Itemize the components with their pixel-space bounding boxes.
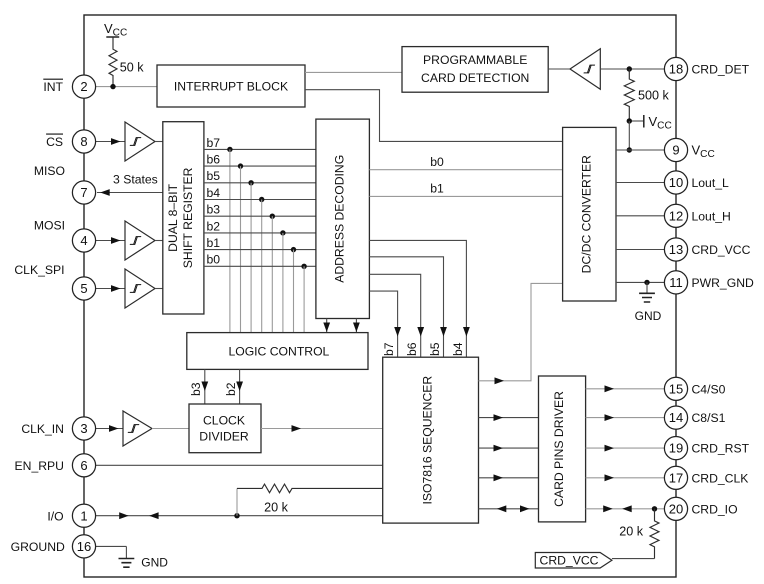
pin 14 circle — [664, 406, 687, 429]
svg-text:I/O: I/O — [47, 509, 63, 523]
power symbol VCC top-left — [104, 21, 127, 39]
arrow into CS buffer — [111, 138, 121, 145]
svg-text:CS: CS — [46, 135, 63, 149]
svg-text:GND: GND — [141, 556, 168, 570]
wire b7 drop to logic control — [229, 149, 231, 332]
svg-text:C8/S1: C8/S1 — [692, 411, 726, 425]
svg-text:1: 1 — [80, 508, 87, 523]
pin 4 circle — [72, 229, 95, 252]
wire sequencer to card pins driver CRD_CLK row — [479, 477, 539, 479]
arrow address decoding to logic control right — [355, 319, 357, 333]
block ISO7816 sequencer — [383, 357, 479, 523]
wire address decoding b6 to sequencer — [369, 274, 420, 357]
arrow CRD_IO row right — [520, 505, 530, 512]
pin 20 circle — [664, 497, 687, 520]
junction node b3 — [270, 214, 275, 219]
wire MOSI buffer to shift register — [155, 240, 163, 242]
wire I/O pin to sequencer — [84, 515, 383, 517]
svg-text:CLK_IN: CLK_IN — [21, 422, 64, 436]
pin 11 circle — [664, 271, 687, 294]
wire interrupt block to DC/DC converter — [305, 90, 563, 142]
block interrupt block — [157, 65, 305, 107]
svg-text:9: 9 — [672, 143, 679, 158]
svg-text:4: 4 — [80, 233, 87, 248]
svg-text:b6: b6 — [405, 342, 419, 356]
arrow CRD_IO pin right — [603, 505, 613, 512]
svg-text:b7: b7 — [207, 136, 221, 150]
schmitt buffer MOSI — [125, 221, 155, 260]
junction node b7 — [227, 147, 232, 152]
wire b2 drop to logic control — [282, 233, 284, 333]
wire CS pin to buffer — [84, 141, 125, 143]
arrow I/O right — [119, 512, 129, 519]
svg-text:5: 5 — [80, 281, 87, 296]
wire comparator to CRD_DET pin — [600, 68, 676, 70]
svg-text:b2: b2 — [207, 219, 221, 233]
svg-text:12: 12 — [669, 208, 683, 223]
svg-text:CRD_RST: CRD_RST — [692, 442, 750, 456]
svg-text:CLK_SPI: CLK_SPI — [14, 263, 64, 277]
resistor 500 k — [624, 69, 669, 121]
junction node VCC tap — [627, 118, 632, 123]
pin 12 circle — [664, 204, 687, 227]
wire bus line b1 — [204, 249, 316, 251]
wire card detection to comparator — [548, 68, 570, 70]
pin 9 circle — [664, 138, 687, 161]
wire bus line b5 — [204, 182, 316, 184]
svg-text:b5: b5 — [428, 342, 442, 356]
svg-text:b7: b7 — [382, 342, 396, 356]
junction node b2 — [280, 230, 285, 235]
pin 13 circle — [664, 238, 687, 261]
svg-text:20 k: 20 k — [619, 524, 644, 538]
svg-text:EN_RPU: EN_RPU — [15, 459, 64, 473]
svg-text:2: 2 — [80, 79, 87, 94]
junction node PWR_GND — [644, 280, 649, 285]
svg-text:20 k: 20 k — [264, 500, 289, 514]
wire b3 logic control to clock divider — [204, 369, 206, 404]
resistor 20 k pull-up — [237, 484, 383, 516]
svg-text:PWR_GND: PWR_GND — [692, 276, 754, 290]
pin 7 circle — [72, 181, 95, 204]
svg-text:b1: b1 — [207, 236, 221, 250]
arrow clock to sequencer — [292, 425, 302, 432]
wire DC/DC to pin — [616, 249, 676, 251]
svg-text:b0: b0 — [207, 253, 221, 267]
wire bus b1 to DC/DC — [369, 195, 562, 197]
pin 10 circle — [664, 171, 687, 194]
pin 17 circle — [664, 466, 687, 489]
wire bus line b0 — [204, 265, 316, 267]
svg-text:6: 6 — [80, 458, 87, 473]
pin 2 circle — [72, 75, 95, 98]
arrow MISO out — [100, 189, 110, 196]
svg-text:CRD_IO: CRD_IO — [692, 502, 738, 516]
pin 19 circle — [664, 437, 687, 460]
label INT — [43, 79, 63, 94]
svg-text:b4: b4 — [451, 342, 465, 356]
svg-text:3 States: 3 States — [113, 173, 158, 187]
svg-text:LOGIC CONTROL: LOGIC CONTROL — [228, 345, 329, 359]
arrow address decoding to logic control left — [326, 319, 328, 333]
pin 1 circle — [72, 504, 95, 527]
schmitt buffer CLK_SPI — [125, 269, 155, 308]
svg-text:C4/S0: C4/S0 — [692, 382, 726, 396]
pin 8 circle — [72, 130, 95, 153]
arrow into MOSI buffer — [111, 237, 121, 244]
svg-text:b1: b1 — [430, 182, 444, 196]
svg-text:GND: GND — [635, 309, 662, 323]
svg-text:b3: b3 — [207, 203, 221, 217]
junction node b5 — [248, 180, 253, 185]
wire MOSI pin to buffer — [84, 240, 125, 242]
wire resistor to CRD_VCC tag — [612, 558, 655, 560]
block dual 8-bit shift register — [163, 122, 204, 314]
svg-text:SHIFT REGISTER: SHIFT REGISTER — [181, 167, 195, 268]
wire driver to card pin — [586, 417, 676, 419]
resistor 20 k card I/O pull-up — [619, 509, 659, 559]
svg-text:20: 20 — [669, 501, 683, 516]
comparator buffer card detect — [570, 49, 600, 90]
svg-text:14: 14 — [669, 410, 683, 425]
wire bus line b6 — [204, 165, 316, 167]
wire DC/DC to pin — [616, 281, 676, 283]
wire b3 drop to logic control — [271, 216, 273, 332]
arrow sequencer to DC/DC — [495, 377, 505, 384]
block card pins driver — [539, 376, 586, 522]
wire MISO output 3-state — [97, 192, 163, 194]
wire CLK_IN pin to buffer — [84, 428, 123, 430]
wire b6 drop to logic control — [240, 166, 242, 333]
wire bus b0 to DC/DC — [369, 169, 562, 171]
junction node b4 — [259, 197, 264, 202]
wire b5 drop to logic control — [250, 183, 252, 333]
arrow into driver CRD_RST row — [494, 445, 504, 452]
schmitt buffer CS — [125, 122, 155, 161]
svg-text:ADDRESS DECODING: ADDRESS DECODING — [333, 155, 347, 283]
wire b1 drop to logic control — [293, 250, 295, 333]
block DC/DC converter — [563, 127, 616, 301]
arrow CRD_IO row left — [497, 505, 507, 512]
svg-text:15: 15 — [669, 381, 683, 396]
svg-text:13: 13 — [669, 242, 683, 257]
svg-text:MISO: MISO — [34, 164, 65, 178]
block clock divider — [189, 404, 261, 453]
svg-text:PROGRAMMABLE: PROGRAMMABLE — [423, 53, 527, 67]
wire sequencer to card pins driver CRD_RST row — [479, 447, 539, 449]
net tag CRD_VCC — [535, 553, 612, 569]
wire sequencer to DC/DC converter — [479, 283, 563, 380]
svg-text:b0: b0 — [430, 155, 444, 169]
block programmable card detection — [402, 47, 548, 93]
schmitt buffer CLK_IN — [123, 411, 152, 446]
junction node b1 — [291, 247, 296, 252]
outer IC boundary box — [84, 15, 676, 577]
wire DC/DC to pin — [616, 182, 676, 184]
wire clock divider to sequencer — [261, 428, 383, 430]
wire buffer to clock divider — [152, 428, 189, 430]
svg-text:CLOCK: CLOCK — [203, 414, 245, 428]
svg-text:CARD PINS DRIVER: CARD PINS DRIVER — [552, 391, 566, 507]
svg-text:CARD DETECTION: CARD DETECTION — [421, 71, 529, 85]
wire CLK_SPI pin to buffer — [84, 288, 125, 290]
arrow to card pin — [605, 414, 615, 421]
svg-text:19: 19 — [669, 441, 683, 456]
svg-text:18: 18 — [669, 62, 683, 77]
wire driver to CRD_IO pin — [586, 508, 676, 510]
wire INT pin to interrupt block — [84, 86, 157, 88]
wire CLK_SPI buffer to shift register — [155, 288, 163, 290]
wire driver to card pin — [586, 477, 676, 479]
ground symbol at GROUND pin — [96, 546, 169, 569]
svg-text:GROUND: GROUND — [11, 540, 65, 554]
junction node at 500k top — [627, 66, 632, 71]
junction node b6 — [238, 163, 243, 168]
svg-text:CRD_CLK: CRD_CLK — [692, 471, 749, 485]
wire sequencer to card pins driver C8/S1 row — [479, 417, 539, 419]
wire bus line b4 — [204, 199, 316, 201]
power symbol VCC mid-right — [629, 114, 671, 132]
junction node at INT/50k — [110, 84, 115, 89]
junction node I/O pull-up — [234, 513, 239, 518]
svg-text:10: 10 — [669, 175, 683, 190]
svg-text:17: 17 — [669, 470, 683, 485]
svg-text:CRD_VCC: CRD_VCC — [692, 243, 751, 257]
svg-text:MOSI: MOSI — [34, 219, 65, 233]
svg-text:CRD_VCC: CRD_VCC — [540, 554, 599, 568]
pin 18 circle — [664, 57, 687, 80]
wire address decoding b7 to sequencer — [369, 291, 397, 357]
svg-text:INTERRUPT BLOCK: INTERRUPT BLOCK — [174, 80, 288, 94]
pin 15 circle — [664, 377, 687, 400]
wire b4 drop to logic control — [261, 200, 263, 333]
svg-text:b3: b3 — [189, 382, 203, 396]
junction node on VCC pin line — [627, 147, 632, 152]
pin 3 circle — [72, 417, 95, 440]
svg-text:b6: b6 — [207, 153, 221, 167]
svg-text:500 k: 500 k — [638, 89, 670, 103]
svg-text:CRD_DET: CRD_DET — [692, 63, 750, 77]
svg-text:7: 7 — [80, 185, 87, 200]
wire b2 logic control to clock divider — [239, 369, 241, 404]
arrow b4 into sequencer — [463, 327, 470, 337]
arrow into CLK_SPI buffer — [111, 285, 121, 292]
svg-text:b4: b4 — [207, 186, 221, 200]
svg-text:8: 8 — [80, 134, 87, 149]
svg-text:3: 3 — [80, 421, 87, 436]
junction node b0 — [301, 264, 306, 269]
wire driver to card pin — [586, 447, 676, 449]
resistor 50 k — [109, 37, 144, 86]
svg-text:16: 16 — [77, 539, 91, 554]
junction node CRD_IO pull-up — [652, 506, 657, 511]
svg-text:DC/DC CONVERTER: DC/DC CONVERTER — [579, 155, 593, 273]
svg-text:50 k: 50 k — [120, 61, 145, 75]
wire bus line b3 — [204, 215, 316, 217]
label CS — [46, 134, 63, 149]
wire address decoding b5 to sequencer — [369, 257, 443, 357]
wire buffer to shift register — [155, 141, 163, 143]
arrow b5 into sequencer — [440, 327, 447, 337]
arrow b7 into sequencer — [394, 327, 401, 337]
wire address decoding b4 to sequencer — [369, 240, 466, 357]
arrow b6 into sequencer — [417, 327, 424, 337]
arrow I/O left — [149, 512, 159, 519]
pin 5 circle — [72, 277, 95, 300]
svg-text:DIVIDER: DIVIDER — [199, 430, 249, 444]
wire interrupt block to programmable card detection — [305, 71, 402, 73]
wire bus line b2 — [204, 232, 316, 234]
arrow to card pin — [605, 385, 615, 392]
wire DC/DC to pin — [616, 149, 676, 151]
arrow to card pin — [605, 474, 615, 481]
block address decoding — [316, 119, 370, 318]
block logic control — [187, 333, 368, 370]
wire EN_RPU pin to sequencer — [84, 464, 383, 466]
wire DC/DC to pin — [616, 215, 676, 217]
arrow to card pin — [605, 445, 615, 452]
svg-text:Lout_L: Lout_L — [692, 176, 729, 190]
pin 16 circle — [72, 535, 95, 558]
svg-text:DUAL 8–BIT: DUAL 8–BIT — [166, 183, 180, 252]
wire bus line b7 — [204, 148, 316, 150]
pin 6 circle — [72, 454, 95, 477]
svg-text:11: 11 — [669, 275, 683, 290]
wire driver to card pin — [586, 388, 676, 390]
arrow into driver CRD_CLK row — [494, 474, 504, 481]
ground symbol PWR_GND — [635, 282, 662, 322]
wire sequencer to driver CRD_IO row — [479, 508, 539, 510]
wire b0 drop to logic control — [303, 266, 305, 332]
arrow CRD_IO pin left — [622, 505, 632, 512]
wire 500k to VCC pin line — [628, 121, 630, 150]
svg-text:b5: b5 — [207, 169, 221, 183]
svg-text:ISO7816 SEQUENCER: ISO7816 SEQUENCER — [421, 376, 435, 505]
svg-text:INT: INT — [43, 80, 63, 94]
svg-text:Lout_H: Lout_H — [692, 209, 731, 223]
arrow into driver C8/S1 row — [494, 414, 504, 421]
svg-text:b2: b2 — [224, 382, 238, 396]
arrow into CLK_IN buffer — [109, 425, 119, 432]
